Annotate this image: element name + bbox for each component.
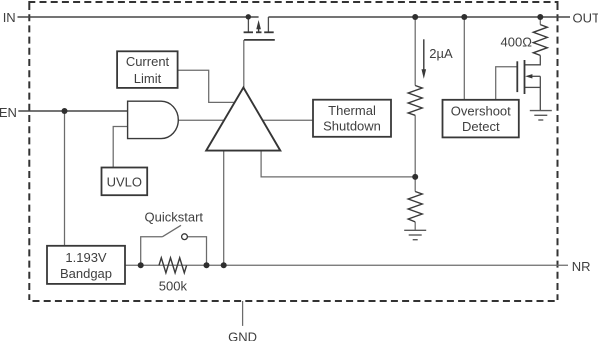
svg-text:EN: EN	[0, 105, 17, 120]
svg-text:Shutdown: Shutdown	[323, 118, 381, 133]
svg-text:IN: IN	[3, 10, 16, 25]
svg-text:GND: GND	[228, 329, 257, 341]
svg-text:500k: 500k	[159, 278, 188, 293]
svg-text:1.193V: 1.193V	[65, 250, 107, 265]
svg-text:Limit: Limit	[134, 71, 162, 86]
svg-text:400Ω: 400Ω	[501, 35, 533, 50]
svg-text:Thermal: Thermal	[328, 103, 376, 118]
svg-text:Current: Current	[126, 54, 170, 69]
svg-text:Quickstart: Quickstart	[145, 209, 204, 224]
svg-text:Overshoot: Overshoot	[451, 103, 511, 118]
svg-text:Detect: Detect	[462, 119, 500, 134]
svg-text:UVLO: UVLO	[107, 175, 142, 190]
svg-text:2µA: 2µA	[429, 46, 453, 61]
svg-text:NR: NR	[572, 259, 591, 274]
svg-text:OUT: OUT	[573, 10, 598, 25]
svg-text:Bandgap: Bandgap	[60, 266, 112, 281]
